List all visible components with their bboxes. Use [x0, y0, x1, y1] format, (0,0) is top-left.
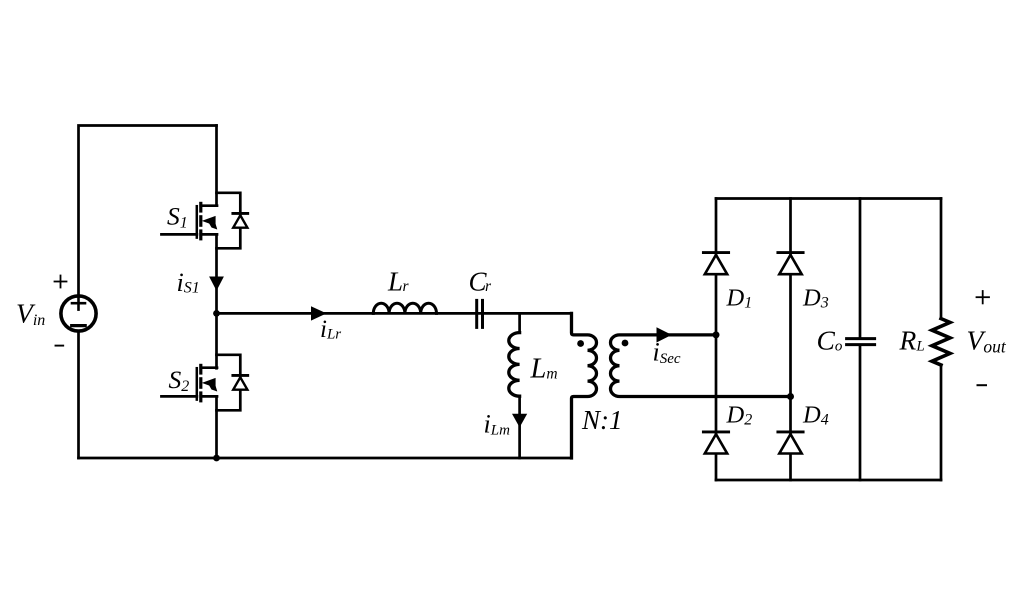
svg-text:RL: RL [899, 324, 925, 355]
svg-text:Lr: Lr [387, 267, 410, 297]
svg-text:D4: D4 [802, 402, 829, 429]
svg-text:S1: S1 [167, 202, 188, 232]
svg-text:iS1: iS1 [177, 268, 200, 297]
svg-text:N:1: N:1 [581, 405, 623, 435]
svg-text:D1: D1 [726, 284, 753, 311]
svg-text:iSec: iSec [653, 337, 681, 367]
svg-text:iLm: iLm [484, 410, 511, 439]
svg-text:Co: Co [817, 324, 843, 355]
svg-text:Lm: Lm [530, 353, 558, 384]
svg-text:Vout: Vout [967, 324, 1007, 356]
svg-text:D2: D2 [726, 402, 753, 429]
svg-text:Vin: Vin [16, 298, 45, 330]
svg-text:Cr: Cr [469, 267, 493, 297]
svg-text:D3: D3 [802, 284, 829, 311]
svg-text:S2: S2 [169, 365, 190, 395]
svg-text:iLr: iLr [320, 316, 341, 343]
